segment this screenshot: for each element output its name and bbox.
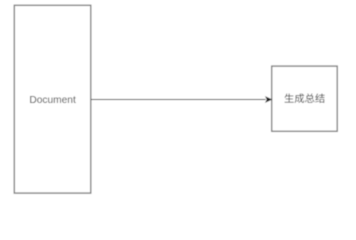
- label text glyph "结" (jie): [315, 93, 324, 102]
- label text glyph "总" (zong): [305, 93, 314, 102]
- svg-text:Document: Document: [29, 95, 76, 106]
- document box (left rectangle): [14, 5, 91, 193]
- arrowhead at process box: [265, 96, 272, 103]
- wire: arrow shaft from Document box to process box: [91, 99, 265, 101]
- label text glyph "生" (sheng): [285, 93, 294, 102]
- process box (right square): [272, 66, 338, 131]
- label text glyph "成" (cheng): [295, 93, 305, 103]
